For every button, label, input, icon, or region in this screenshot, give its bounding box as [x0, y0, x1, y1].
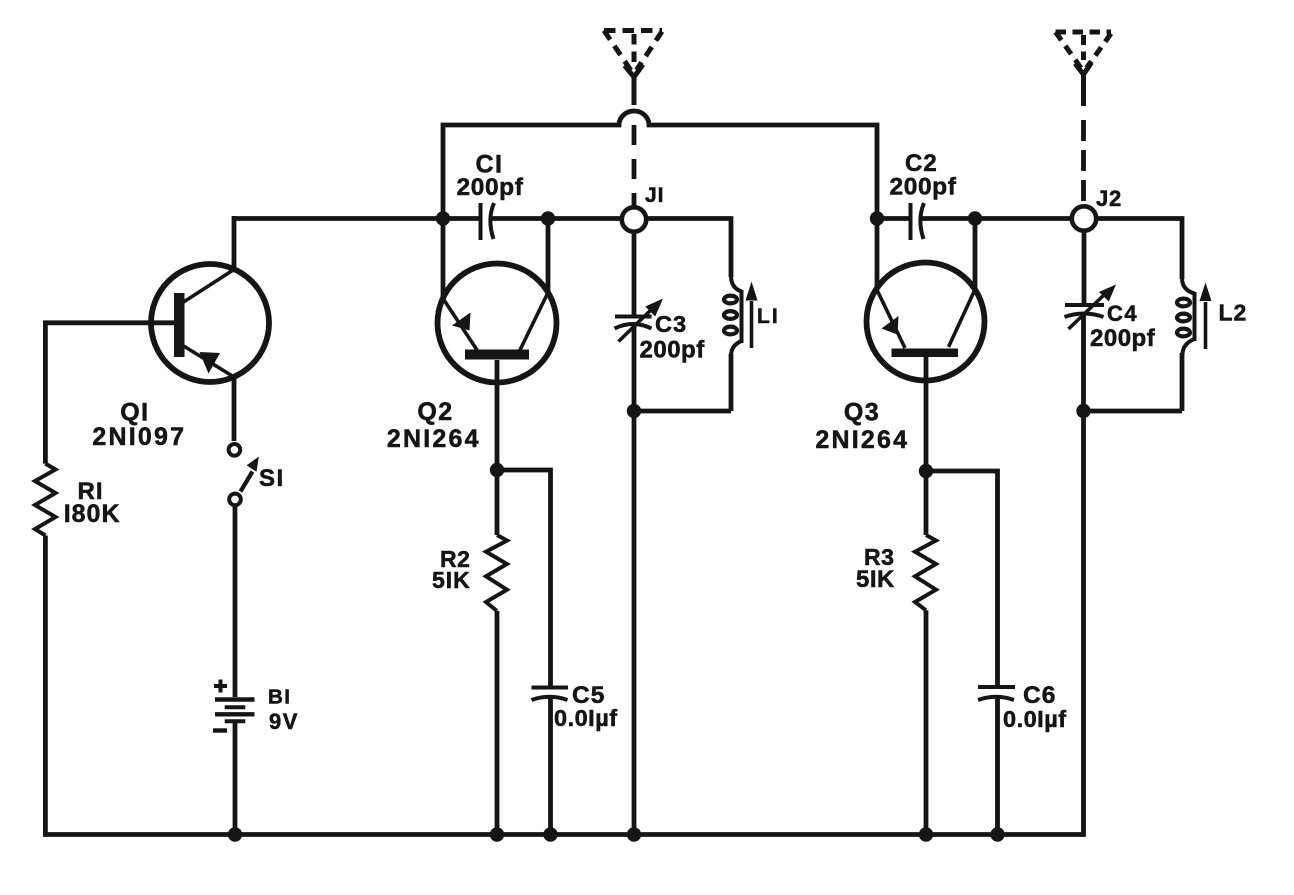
- wire top bus with hop: [443, 111, 877, 219]
- svg-text:C6: C6: [1023, 682, 1056, 709]
- wire main bus left segment: [234, 216, 480, 221]
- svg-text:2NI264: 2NI264: [387, 425, 481, 453]
- junction Q2 base: [490, 463, 504, 477]
- svg-text:9V: 9V: [269, 709, 299, 734]
- jack J1: [622, 207, 646, 231]
- svg-text:J2: J2: [1096, 186, 1122, 211]
- wire Q1 collector riser: [232, 216, 237, 269]
- svg-text:200pf: 200pf: [640, 337, 706, 364]
- junction C1 right: [541, 211, 555, 225]
- svg-text:LI: LI: [757, 305, 780, 328]
- junction tank2 bottom: [1076, 404, 1090, 418]
- svg-text:0.0Iµf: 0.0Iµf: [1003, 706, 1067, 732]
- svg-text:0.0Iµf: 0.0Iµf: [554, 705, 618, 731]
- transistor Q2: [438, 264, 557, 383]
- resistor R3: [915, 471, 936, 835]
- wire Q3 emitter riser: [875, 219, 880, 289]
- svg-text:5IK: 5IK: [432, 567, 471, 593]
- junction tank1 bottom: [627, 404, 641, 418]
- antenna ANT1: [604, 31, 662, 208]
- svg-text:C3: C3: [655, 311, 687, 337]
- resistor R2: [486, 470, 507, 835]
- wire C2 to J2: [921, 216, 1071, 221]
- wire L1 bottom to tank node: [634, 409, 731, 414]
- junction C2 left: [870, 211, 884, 225]
- junction C6 bottom: [990, 827, 1004, 841]
- wire J2 down to C4: [1082, 231, 1087, 303]
- switch S1: [229, 444, 259, 505]
- junction tank1 riser bottom: [627, 827, 641, 841]
- inductor L2: [1177, 279, 1212, 411]
- wire Q3 base lead: [924, 357, 929, 471]
- wire C4 down to bottom bus: [1081, 315, 1086, 414]
- wire R2 top to C5 branch: [497, 470, 551, 686]
- capacitor C5: [532, 688, 569, 835]
- wire L2 bottom to tank node: [1084, 409, 1183, 414]
- svg-text:5IK: 5IK: [856, 566, 895, 593]
- wire Q2 emitter riser: [441, 219, 446, 299]
- capacitor C4 variable: [1065, 285, 1117, 330]
- wire switch to battery: [233, 506, 238, 697]
- capacitor C3 variable: [615, 299, 664, 342]
- wire right bus segment: [877, 216, 910, 221]
- svg-text:C4: C4: [1107, 301, 1138, 326]
- svg-text:BI: BI: [268, 686, 292, 709]
- wire C3 down to tank node: [632, 326, 637, 835]
- wire J1 to L1 corner: [647, 219, 732, 278]
- wire J2 to L2 corner: [1097, 219, 1182, 280]
- wire J1 down to C3: [632, 232, 637, 315]
- junction C5 bottom: [543, 827, 557, 841]
- battery B1: [213, 680, 255, 731]
- inductor L1: [724, 277, 758, 411]
- svg-text:200pf: 200pf: [457, 174, 524, 201]
- junction battery bottom: [228, 827, 242, 841]
- capacitor C2: [911, 203, 925, 240]
- svg-text:L2: L2: [1219, 300, 1248, 326]
- wire Q1 emitter to switch: [232, 377, 237, 441]
- svg-text:200pf: 200pf: [1090, 325, 1156, 352]
- svg-text:Q3: Q3: [844, 399, 880, 427]
- svg-text:2NI264: 2NI264: [815, 426, 909, 454]
- wire Q3 collector riser: [973, 219, 978, 290]
- capacitor C1: [481, 203, 495, 240]
- wire Q2 collector riser: [546, 219, 551, 293]
- svg-text:200pf: 200pf: [890, 174, 957, 201]
- junction R3 bottom: [919, 827, 933, 841]
- svg-text:Q2: Q2: [417, 398, 453, 426]
- svg-text:JI: JI: [645, 184, 665, 207]
- junction C1 left: [436, 211, 450, 225]
- antenna ANT2: [1056, 32, 1112, 202]
- capacitor C6: [978, 687, 1015, 835]
- wire battery to bottom bus: [233, 723, 238, 835]
- junction R2 bottom: [490, 827, 504, 841]
- wire R3 top to C6 branch: [926, 471, 998, 685]
- jack J2: [1072, 206, 1096, 230]
- transistor Q1: [151, 264, 269, 382]
- wire C1 to J1: [491, 216, 622, 221]
- transistor Q3: [867, 263, 985, 381]
- svg-text:2NI097: 2NI097: [92, 423, 186, 451]
- wire Q2 base lead: [495, 360, 500, 470]
- svg-text:SI: SI: [259, 465, 285, 492]
- junction C2 right: [968, 211, 982, 225]
- resistor R1: [35, 323, 1084, 835]
- svg-text:I80K: I80K: [64, 500, 121, 528]
- junction Q3 base: [919, 464, 933, 478]
